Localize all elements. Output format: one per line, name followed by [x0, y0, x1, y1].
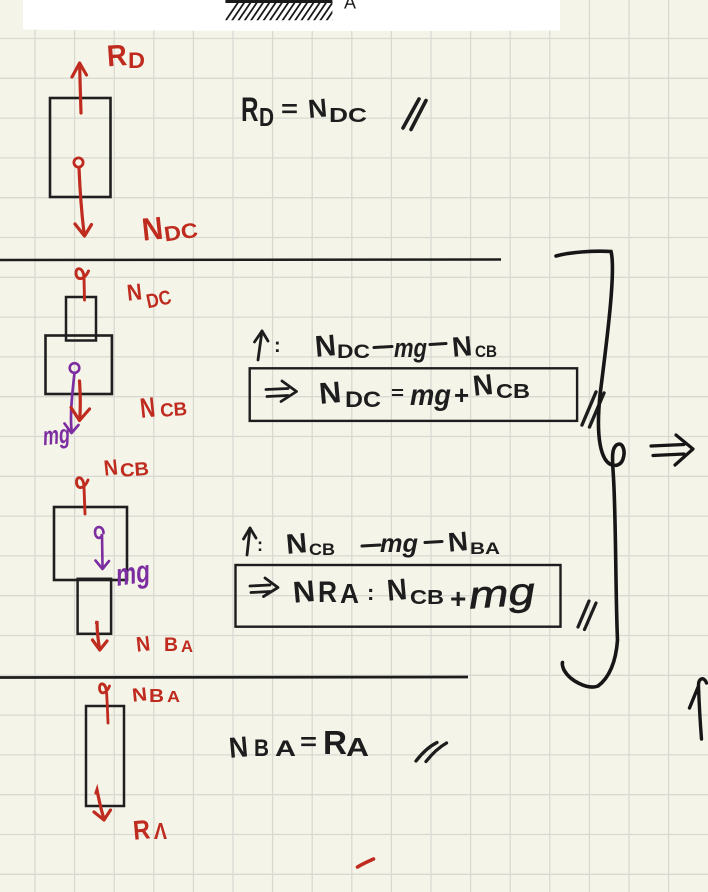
boxed equation 2	[236, 565, 561, 627]
svg-text:R: R	[318, 576, 337, 609]
svg-text:mg: mg	[410, 379, 451, 412]
svg-text:+: +	[450, 583, 466, 614]
svg-text:N: N	[314, 329, 338, 364]
svg-text::: :	[367, 580, 374, 605]
double arrow =>	[266, 381, 297, 402]
svg-text:CB: CB	[309, 540, 335, 559]
svg-text:N: N	[103, 454, 120, 480]
small upper rectangle	[66, 297, 96, 341]
small red dash (bottom)	[358, 859, 374, 867]
svg-text:R: R	[241, 91, 259, 129]
svg-text:A: A	[181, 637, 193, 656]
svg-text:R: R	[323, 724, 347, 761]
svg-text:A: A	[275, 736, 296, 761]
svg-text:mg: mg	[41, 419, 71, 452]
svg-text:N: N	[140, 210, 165, 248]
svg-text:N: N	[447, 526, 470, 558]
large upper rectangle	[54, 507, 127, 580]
svg-text:R: R	[132, 814, 152, 845]
svg-text:N: N	[386, 573, 409, 608]
small up arrow (bottom right edge, black)	[690, 679, 707, 739]
weight point circle (purple)	[70, 363, 80, 373]
hatched support block	[225, 0, 353, 21]
svg-text:N: N	[451, 330, 474, 363]
weight arrow mg (purple)	[71, 373, 75, 430]
small up arrow q (red)	[100, 684, 110, 723]
svg-text:mg: mg	[467, 571, 536, 618]
tick marks // after box 2	[578, 601, 596, 630]
double arrow =>	[250, 578, 278, 597]
svg-text:N: N	[285, 527, 309, 560]
force arrow RD (up, red)	[80, 64, 81, 113]
svg-text:N: N	[228, 731, 250, 765]
svg-text:N: N	[292, 575, 317, 610]
tick marks // after eq4	[416, 743, 447, 762]
svg-text:DC: DC	[337, 342, 370, 363]
svg-text:B: B	[149, 686, 164, 706]
svg-text:B: B	[254, 735, 269, 762]
svg-text:DC: DC	[345, 387, 381, 412]
white header strip	[23, 0, 560, 31]
svg-text:A: A	[344, 0, 356, 13]
svg-text:N: N	[135, 632, 151, 656]
big grouping brace (right side)	[556, 251, 624, 687]
svg-text:CB: CB	[475, 342, 497, 361]
svg-text:CB: CB	[496, 381, 530, 403]
svg-text:BA: BA	[470, 539, 500, 558]
svg-text:CB: CB	[410, 587, 444, 609]
svg-text:+: +	[454, 380, 469, 410]
force arrow RA (down, red)	[96, 790, 104, 817]
force arrow NBA (down, red)	[97, 621, 100, 647]
svg-text:B: B	[164, 635, 178, 656]
equation 2 line 1: up: NDC - mg - NCB	[258, 331, 262, 360]
small up arrow q (red)	[76, 269, 89, 300]
svg-text:Λ: Λ	[154, 818, 168, 844]
separator line 2	[0, 676, 468, 679]
small up arrow q (red)	[77, 478, 89, 514]
tick marks // after box 1	[582, 392, 604, 427]
block D/C rectangle	[50, 98, 111, 197]
svg-text:A: A	[340, 578, 359, 609]
force arrow NCB (down, red)	[78, 381, 82, 418]
svg-text:=: =	[281, 96, 298, 123]
svg-text:mg: mg	[380, 528, 418, 558]
svg-text:DC: DC	[163, 219, 200, 247]
svg-text:A: A	[167, 689, 180, 706]
svg-text:N: N	[126, 278, 144, 305]
svg-text:CB: CB	[159, 399, 187, 422]
svg-text:=: =	[391, 383, 404, 403]
svg-text:mg: mg	[113, 553, 152, 592]
center point circle	[74, 158, 83, 167]
svg-text:A: A	[346, 732, 369, 762]
big double arrow => (right)	[651, 435, 693, 465]
equation 3 line 1: up: NCB - mg - NBA	[247, 528, 250, 555]
weight arrow mg with loop (purple)	[95, 527, 104, 566]
small lower rectangle	[78, 579, 112, 634]
boxed equation 1	[250, 368, 577, 421]
force arrow NDC (down, red)	[79, 168, 84, 233]
svg-text:CB: CB	[119, 459, 149, 482]
large lower rectangle	[46, 336, 112, 395]
svg-text::: :	[274, 335, 281, 357]
separator line 1	[0, 258, 501, 261]
svg-text:=: =	[300, 729, 317, 756]
svg-text:N: N	[307, 92, 329, 124]
tick marks // after eq1	[403, 99, 426, 130]
svg-text:N: N	[318, 376, 343, 411]
block A rectangle (tall thin)	[86, 706, 124, 806]
svg-text:mg: mg	[394, 333, 427, 363]
svg-text::: :	[257, 535, 263, 555]
svg-text:DC: DC	[329, 105, 367, 127]
svg-text:N: N	[471, 369, 494, 403]
svg-text:D: D	[128, 48, 145, 73]
svg-text:R: R	[106, 39, 129, 73]
svg-text:N: N	[131, 684, 148, 706]
svg-text:D: D	[259, 102, 274, 132]
